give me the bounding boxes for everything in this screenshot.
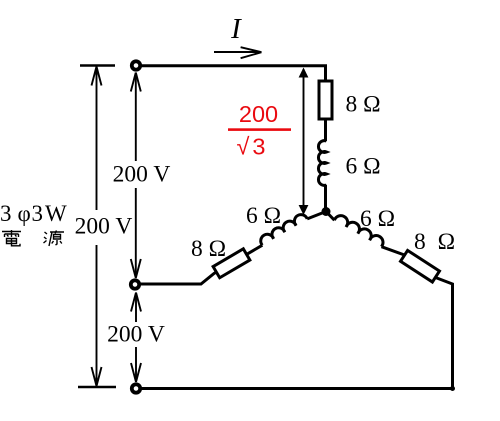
svg-text:6 Ω: 6 Ω: [346, 154, 381, 180]
svg-text:8 Ω: 8 Ω: [346, 92, 381, 118]
svg-text:200 V: 200 V: [75, 214, 133, 240]
svg-text:I: I: [230, 13, 242, 45]
svg-text:8 Ω: 8 Ω: [191, 236, 226, 262]
svg-text:200: 200: [239, 101, 278, 127]
svg-text:8 Ω: 8 Ω: [414, 229, 458, 255]
svg-text:√3: √3: [237, 134, 269, 160]
svg-text:3φ3W: 3φ3W: [0, 201, 67, 226]
svg-text:200 V: 200 V: [107, 322, 165, 348]
svg-text:6 Ω: 6 Ω: [360, 206, 395, 232]
svg-text:6 Ω: 6 Ω: [246, 203, 281, 229]
svg-text:200 V: 200 V: [113, 162, 171, 188]
